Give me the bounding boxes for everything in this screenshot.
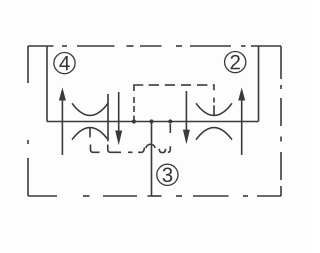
port 4 line bbox=[46, 46, 48, 122]
right restrictor center tick bbox=[213, 105, 215, 115]
right restrictor lower arc bbox=[196, 128, 232, 140]
port 4 label circle bbox=[54, 53, 75, 74]
pilot line top left vertical (dashed) bbox=[134, 85, 143, 122]
left restrictor lower arc bbox=[72, 128, 108, 140]
left down arrow bbox=[115, 92, 122, 145]
left restrictor center tick bbox=[89, 128, 91, 138]
port 3 line bbox=[151, 122, 153, 197]
pilot line bottom right vertical (dashed) bbox=[168, 124, 171, 152]
right restrictor upper arc bbox=[196, 103, 232, 115]
pilot line top horizontal (dashed) bbox=[149, 84, 208, 86]
pilot line bottom horizontal (dashed) bbox=[91, 144, 166, 152]
envelope left edge (dash-dot) bbox=[27, 46, 29, 196]
junction dot A bbox=[132, 119, 136, 123]
pilot line top right vertical (dashed) bbox=[213, 85, 214, 103]
left restrictor upper arc bbox=[72, 103, 108, 115]
junction dot B bbox=[149, 119, 153, 123]
envelope bottom edge (dash-dot) bbox=[28, 195, 281, 197]
right up arrow bbox=[238, 88, 245, 156]
left element wall bbox=[107, 94, 109, 141]
envelope top edge (dash-dot) bbox=[28, 45, 281, 47]
main horizontal line bbox=[47, 121, 259, 123]
port 3 label circle bbox=[157, 164, 178, 185]
left up arrow bbox=[59, 88, 66, 156]
right down arrow bbox=[183, 91, 190, 144]
port 2 label circle bbox=[225, 52, 246, 73]
port 2 line bbox=[258, 46, 260, 122]
envelope right edge (dash-dot) bbox=[280, 46, 282, 196]
junction dot C bbox=[168, 119, 172, 123]
